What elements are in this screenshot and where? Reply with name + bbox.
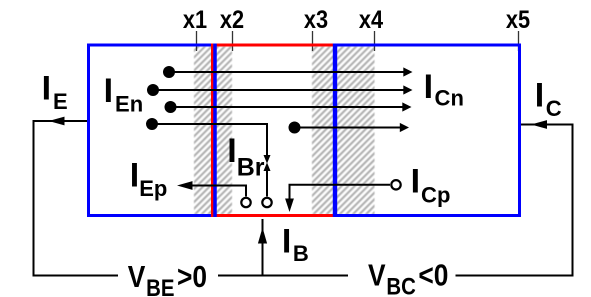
svg-text:x2: x2 (220, 6, 244, 34)
tick x1 (196, 31, 198, 51)
depletion region hatch band 2 (collector-base) (312, 47, 375, 215)
hole 1 (241, 198, 250, 207)
collector-base junction line (333, 44, 337, 218)
transistor body blue outline (89, 45, 520, 216)
tick x4 (374, 31, 376, 51)
electron 2 (147, 84, 159, 96)
emitter wire IE (34, 121, 119, 276)
tick x3 (312, 31, 314, 51)
emitter-base junction line (213, 44, 217, 218)
electron 4 (146, 118, 158, 130)
electron recombination path (152, 124, 267, 156)
wire IB to VBC (263, 275, 349, 277)
electron flow line 3 (171, 106, 405, 108)
hole 3 (391, 180, 400, 189)
electron flow line 5 (295, 127, 402, 129)
base region red outline (213, 45, 336, 216)
electron 1 (163, 66, 175, 78)
electron 5 (289, 122, 301, 134)
recombination arrows (264, 155, 271, 164)
electron flow line 2 (153, 89, 405, 91)
electron flow line 1 (169, 71, 405, 73)
wire VBE to IB (218, 275, 263, 277)
electron 3 (165, 101, 177, 113)
svg-text:x4: x4 (359, 6, 383, 34)
tick x5 (518, 31, 520, 51)
tick x2 (232, 31, 234, 51)
svg-text:x1: x1 (183, 6, 207, 34)
hole 2 (262, 198, 271, 207)
hole injection path IEp (190, 186, 246, 197)
depletion region hatch band 1 (emitter-base) (194, 47, 232, 215)
collector wire IC (456, 125, 573, 276)
svg-text:x5: x5 (506, 6, 530, 34)
base current wire IB (262, 219, 264, 276)
hole path ICp (290, 185, 391, 203)
svg-text:x3: x3 (304, 6, 328, 34)
